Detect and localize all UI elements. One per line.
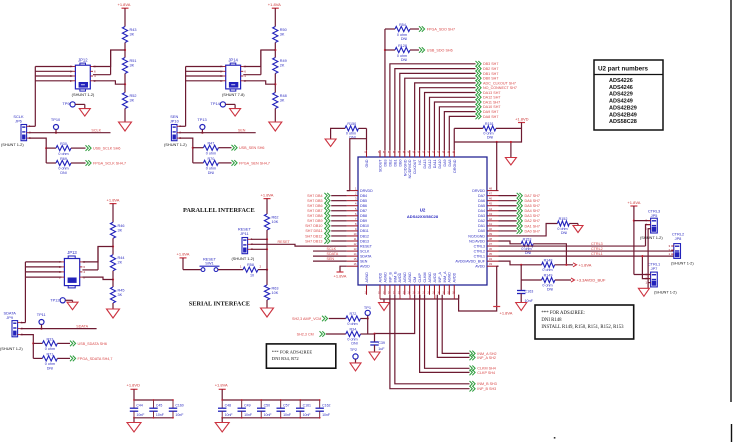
resistor R51 3K (122, 58, 127, 74)
wire net SCLK at U2 (313, 250, 347, 252)
resistor R34 0 ohm DNI (346, 331, 361, 336)
ground (234, 104, 236, 108)
svg-text:3K: 3K (118, 228, 123, 232)
svg-text:+1.8VA: +1.8VA (261, 192, 274, 197)
svg-text:JP9: JP9 (6, 315, 13, 320)
svg-text:NC/AVDD: NC/AVDD (469, 239, 485, 243)
svg-text:TP11: TP11 (37, 312, 46, 317)
svg-text:10nF: 10nF (175, 413, 183, 417)
svg-text:DA10 SH7: DA10 SH7 (483, 105, 500, 109)
svg-text:R50: R50 (280, 28, 287, 32)
svg-text:TP10: TP10 (51, 117, 61, 122)
ground (638, 288, 649, 296)
power +1.8VA (573, 263, 577, 267)
svg-text:(SHUNT 1-2): (SHUNT 1-2) (164, 142, 187, 147)
resistor R149 0 ohm DNI (521, 279, 541, 281)
svg-text:R128: R128 (398, 44, 407, 48)
svg-text:10: 10 (250, 274, 254, 278)
svg-text:INSTALL R149, R150, R151, R152: INSTALL R149, R150, R151, R152, R153 (541, 325, 624, 330)
svg-text:SH7 DB6: SH7 DB6 (307, 204, 322, 208)
resistor R62 10K (264, 214, 269, 230)
svg-text:R151: R151 (485, 122, 494, 126)
svg-text:R33: R33 (47, 337, 54, 341)
JP7 pin stubs (648, 274, 651, 276)
signal NO_CONNECT SH7 (476, 85, 482, 91)
wire JP6 pin3 drop (28, 138, 46, 163)
wire R148 right to +1.8VA (555, 264, 573, 266)
resistor R71 0 ohm DNI (33, 357, 42, 359)
signal INM_B SH3 (470, 381, 476, 387)
JP14 pin stubs (223, 66, 226, 68)
svg-text:R70: R70 (208, 157, 215, 161)
wire JP12 pin2 to divider low tap (93, 81, 125, 84)
svg-text:SDATA: SDATA (360, 254, 372, 258)
wire (266, 230, 268, 270)
wire (55, 130, 57, 133)
svg-text:AGND: AGND (383, 272, 387, 283)
svg-text:DB8: DB8 (360, 214, 367, 218)
svg-text:*** FOR ADS42REE: *** FOR ADS42REE (272, 349, 313, 354)
svg-text:DA7 SH7: DA7 SH7 (525, 194, 540, 198)
svg-text:DA2 SH7: DA2 SH7 (525, 219, 540, 223)
svg-text:C49: C49 (244, 404, 250, 408)
svg-text:SERIAL INTERFACE: SERIAL INTERFACE (189, 301, 250, 308)
wire (361, 333, 375, 335)
ground (72, 300, 74, 302)
capacitor C57 10nF (280, 400, 282, 408)
svg-text:R54: R54 (399, 23, 406, 27)
svg-text:R58: R58 (247, 263, 254, 267)
signal DA1 SH7 (499, 225, 517, 227)
wire net CTRL2 (499, 250, 674, 252)
resistor R63 10K (266, 270, 268, 285)
svg-text:(SHUNT 1-2): (SHUNT 1-2) (232, 256, 255, 261)
svg-text:DA7: DA7 (478, 194, 485, 198)
wire (274, 74, 276, 93)
signal SH7 DB6 (324, 203, 330, 209)
svg-text:R63: R63 (272, 287, 279, 291)
signal DA0 SH7 (499, 230, 517, 232)
svg-text:C48: C48 (225, 404, 231, 408)
wire JP12 pin4 (93, 74, 111, 76)
svg-text:SEN: SEN (360, 259, 368, 263)
svg-text:DA1 SH7: DA1 SH7 (525, 224, 540, 228)
svg-text:FPGA_SEN SH4,7: FPGA_SEN SH4,7 (239, 161, 270, 165)
svg-text:DA6: DA6 (478, 199, 485, 203)
svg-text:1uF: 1uF (378, 347, 385, 351)
svg-text:R62: R62 (272, 216, 279, 220)
capacitor C45 10nF (153, 400, 155, 408)
resistor R48 3K (273, 93, 278, 109)
svg-text:SW1: SW1 (205, 261, 213, 266)
svg-text:3K: 3K (280, 33, 285, 37)
JP10 pin stubs (177, 125, 179, 127)
svg-text:DA2: DA2 (478, 219, 485, 223)
svg-text:10nF: 10nF (136, 413, 144, 417)
wire JP10 pin3 drop (179, 138, 193, 163)
resistor R50 3K (273, 27, 278, 43)
svg-text:FPGA_SCLK SH4,7: FPGA_SCLK SH4,7 (93, 161, 126, 165)
svg-text:TP2: TP2 (350, 347, 357, 352)
svg-text:CTRL3: CTRL3 (591, 242, 603, 246)
svg-text:CLKP SH4: CLKP SH4 (477, 371, 495, 375)
svg-text:DA13 SH7: DA13 SH7 (483, 91, 500, 95)
svg-text:SEN: SEN (238, 129, 246, 133)
svg-text:ADS42XX/58C28: ADS42XX/58C28 (407, 214, 439, 219)
signal SH7 DB4 (324, 193, 330, 199)
svg-text:SH7 DB7: SH7 DB7 (307, 209, 322, 213)
ground (84, 104, 86, 108)
svg-text:DA3 SH7: DA3 SH7 (525, 214, 540, 218)
svg-text:R43: R43 (130, 28, 137, 32)
wire to ground (DRGND) (510, 142, 512, 158)
svg-text:SH7 DB8: SH7 DB8 (307, 214, 322, 218)
JP6 pin stubs (27, 125, 29, 127)
resistor R46 3K (110, 222, 115, 238)
svg-text:USB_SEN SH6: USB_SEN SH6 (239, 146, 264, 150)
resistor R70 0 ohm DNI (193, 162, 204, 164)
svg-text:+1.8VA: +1.8VA (627, 200, 640, 205)
svg-text:JP5: JP5 (651, 213, 658, 218)
resistor R45 3K (110, 287, 115, 303)
signal ADC_CLKOUT SH7 (476, 80, 482, 86)
wire bypass bank bottom bus (134, 417, 173, 419)
svg-text:GND: GND (365, 159, 369, 167)
svg-text:R30: R30 (60, 142, 67, 146)
svg-text:DB6: DB6 (360, 204, 367, 208)
svg-text:ADS4229: ADS4229 (609, 92, 633, 98)
wire bypass bank top bus (134, 399, 173, 401)
ground (325, 139, 336, 147)
U2 bottom pin stubs and names (366, 285, 368, 295)
svg-text:CLKP: CLKP (418, 273, 422, 283)
JP9 pin stubs (18, 322, 21, 324)
svg-text:C45: C45 (156, 404, 162, 408)
wire U2 DRVDD pin1 riser (347, 190, 350, 192)
ground (119, 122, 132, 131)
JP11 pin stubs (248, 238, 251, 240)
svg-text:+3.3AVDD_BUF: +3.3AVDD_BUF (577, 278, 606, 283)
svg-text:DA12 SH7: DA12 SH7 (483, 96, 500, 100)
signal CLKM SH4 (470, 366, 476, 372)
resistor R43 3K (122, 27, 127, 43)
svg-text:JP7: JP7 (651, 266, 658, 271)
svg-text:JP11: JP11 (240, 231, 249, 236)
resistor R30 0 ohm (46, 147, 56, 149)
svg-text:(SHUNT 7-8): (SHUNT 7-8) (222, 92, 245, 97)
JP5 pin stubs (648, 220, 651, 222)
wire (274, 109, 276, 123)
wire JP14 pin8 to divider (243, 50, 275, 67)
sheet border right (730, 0, 732, 402)
svg-text:SH2,3 AMP_VCM: SH2,3 AMP_VCM (292, 317, 321, 321)
wire DB0 riser and run (405, 78, 476, 150)
wire R151 left to DRGND riser (454, 127, 483, 129)
svg-text:DB4: DB4 (360, 194, 367, 198)
wire net RESET to U2 (250, 244, 346, 246)
ground (369, 352, 380, 360)
resistor R44 2K (110, 255, 115, 271)
svg-text:JP14: JP14 (228, 58, 238, 63)
wire (182, 258, 184, 270)
svg-text:ADS42B29: ADS42B29 (609, 105, 637, 111)
wire AVDD pin33 to +1.8VA (497, 265, 499, 267)
signal DA4 SH7 (499, 210, 517, 212)
svg-text:AGND: AGND (428, 272, 432, 283)
svg-text:DA4: DA4 (478, 209, 485, 213)
svg-text:AVDD/AVDD_BUF: AVDD/AVDD_BUF (455, 259, 485, 263)
wire (266, 300, 268, 308)
svg-text:JP12: JP12 (78, 58, 88, 63)
wire (112, 271, 114, 287)
svg-text:R150: R150 (347, 122, 356, 126)
wire JP14 pin4 (243, 74, 261, 76)
U2 left pin stubs and names (347, 190, 358, 192)
svg-text:DNI: DNI (47, 366, 53, 370)
wire SDOUT riser (384, 29, 386, 150)
ground (516, 303, 527, 311)
op IC U2 ADS42XX body (358, 157, 487, 285)
wire net SEN at U2 (313, 260, 347, 262)
wire NO_CONNECT riser and run (420, 88, 476, 151)
svg-text:SDOUT: SDOUT (379, 159, 383, 172)
wire (201, 130, 203, 133)
signal SH7 DB7 (324, 208, 330, 214)
svg-text:CTRL3: CTRL3 (474, 244, 485, 248)
svg-text:DA4 SH7: DA4 SH7 (525, 209, 540, 213)
wire INM_A drop and run (442, 295, 469, 354)
wire (124, 43, 126, 58)
wire CLKP drop and run (420, 295, 470, 373)
wire to JP5 pin3 (634, 220, 651, 222)
svg-text:AGND: AGND (365, 272, 369, 283)
svg-text:DB1 SH7: DB1 SH7 (483, 72, 498, 76)
svg-text:0 ohm: 0 ohm (542, 268, 552, 272)
resistor R151 0 ohm DNI (483, 126, 496, 131)
resistor R150 0 ohm DNI (345, 126, 359, 131)
wire ADC_CLKOUT riser and run (415, 83, 476, 150)
wire (329, 318, 346, 320)
capacitor C44 10nF (133, 400, 135, 408)
svg-text:JP8: JP8 (675, 236, 682, 241)
svg-text:NO_CONNECT SH7: NO_CONNECT SH7 (483, 86, 517, 90)
wire JP9 pin1 from JP13 bus (20, 322, 25, 324)
svg-text:ADS4249: ADS4249 (609, 99, 633, 105)
svg-text:DA3: DA3 (478, 214, 485, 218)
svg-text:R153: R153 (523, 237, 532, 241)
wire DA10 riser and run (439, 107, 475, 150)
signal DA8 SH7 (476, 114, 482, 120)
note box FOR ADS42REE INSTALL R149-R153 (535, 305, 634, 339)
svg-text:R45: R45 (118, 289, 125, 293)
svg-text:DA13: DA13 (423, 160, 427, 169)
signal DB1 SH7 (476, 71, 482, 77)
capacitor C160 10nF (172, 400, 174, 408)
wire NC/AVDD to R153 (499, 241, 522, 244)
svg-text:CTRL1: CTRL1 (474, 254, 485, 258)
svg-text:+1.8VA: +1.8VA (177, 252, 190, 257)
wire +1.8VA to JP7 pin3 (634, 274, 651, 276)
wire (226, 103, 236, 105)
svg-text:0 ohm: 0 ohm (58, 152, 68, 156)
wire JP13 pin2 to low tap (82, 277, 113, 279)
wire (361, 318, 368, 320)
signal FPGA_SDATA SH4,7 (70, 356, 76, 362)
wire to R149 (520, 265, 522, 280)
svg-text:DRGND: DRGND (453, 159, 457, 173)
svg-text:DB0: DB0 (398, 160, 402, 167)
svg-text:0 ohm: 0 ohm (206, 151, 216, 155)
svg-text:(SHUNT 1-2): (SHUNT 1-2) (0, 346, 23, 351)
svg-text:DA9 SH7: DA9 SH7 (483, 110, 498, 114)
svg-text:AGND: AGND (403, 272, 407, 283)
signal SH7 DB12 (324, 233, 330, 239)
wire (112, 303, 114, 309)
svg-text:DB3 SH7: DB3 SH7 (483, 62, 498, 66)
wire R152 right to ground (569, 223, 578, 225)
signal DB0 SH7 (476, 75, 482, 81)
svg-text:AVDD: AVDD (453, 272, 457, 282)
signal DA13 SH7 (476, 90, 482, 96)
svg-text:FPGA_SDO SH7: FPGA_SDO SH7 (427, 27, 455, 31)
svg-text:SDATA: SDATA (327, 252, 339, 256)
svg-text:NC/DRVDD: NC/DRVDD (408, 159, 412, 178)
svg-text:DB5: DB5 (360, 199, 367, 203)
svg-text:DA10: DA10 (438, 160, 442, 169)
svg-text:R149: R149 (544, 274, 553, 278)
svg-text:TP9: TP9 (62, 101, 69, 106)
svg-text:ADS4226: ADS4226 (609, 78, 633, 84)
wire DA9 riser and run (444, 112, 475, 151)
wire net SCLK (28, 132, 110, 134)
svg-text:CTRL2: CTRL2 (591, 247, 603, 251)
svg-text:DA8 SH7: DA8 SH7 (483, 115, 498, 119)
wire DA11 riser and run (434, 102, 475, 150)
svg-text:10nF: 10nF (244, 413, 252, 417)
capacitor C163 10nF (520, 280, 522, 291)
svg-text:DB13: DB13 (360, 239, 369, 243)
wire bus left of JP13 (25, 261, 61, 263)
wire AGND bus under U2 (380, 298, 459, 300)
svg-text:JP10: JP10 (170, 119, 180, 124)
ground (221, 418, 223, 423)
svg-text:SH7 DB9: SH7 DB9 (307, 219, 322, 223)
svg-text:AGND: AGND (408, 272, 412, 283)
svg-text:DA0 SH7: DA0 SH7 (525, 229, 540, 233)
svg-text:DB9: DB9 (360, 219, 367, 223)
svg-text:C160: C160 (175, 404, 183, 408)
wire JP11 pin1 to R62 (250, 238, 267, 240)
svg-text:(SHUNT 1-2): (SHUNT 1-2) (640, 235, 663, 240)
resistor R128 0 ohm DNI (385, 49, 395, 51)
svg-text:DA5: DA5 (478, 204, 485, 208)
svg-text:+1.8VA: +1.8VA (215, 382, 228, 387)
svg-text:ADC_CLKOUT SH7: ADC_CLKOUT SH7 (483, 81, 516, 85)
svg-text:DA9: DA9 (443, 160, 447, 167)
svg-text:R52: R52 (130, 94, 137, 98)
svg-text:CLKOUT: CLKOUT (413, 159, 417, 174)
ground (505, 158, 516, 166)
svg-text:DA12: DA12 (428, 160, 432, 169)
svg-text:DB10: DB10 (360, 224, 369, 228)
wire JP10 pin1 from JP14 bus (179, 125, 186, 127)
capacitor C39 1uF (374, 334, 376, 342)
wire JP9 pin3 drop (20, 335, 33, 359)
svg-text:SCLK: SCLK (91, 129, 101, 133)
svg-text:3K: 3K (118, 293, 123, 297)
wire JP14 pin2 to divider low tap (243, 81, 275, 84)
ground (573, 226, 583, 233)
resistor R52 3K (122, 93, 127, 109)
wire NC/DGND to R152 (499, 224, 558, 236)
signal DA10 SH7 (476, 104, 482, 110)
svg-text:2K: 2K (280, 64, 285, 68)
svg-text:CLKM: CLKM (423, 273, 427, 283)
svg-text:DA5 SH7: DA5 SH7 (525, 204, 540, 208)
wire CLKM drop and run (425, 295, 470, 369)
svg-text:U2: U2 (420, 208, 426, 213)
signal SH7 DB5 (324, 198, 330, 204)
svg-text:(SHUNT 1-2): (SHUNT 1-2) (671, 260, 694, 265)
svg-text:DB11: DB11 (360, 229, 369, 233)
svg-text:C163: C163 (525, 290, 534, 294)
signal DA7 SH7 (499, 195, 517, 197)
svg-text:DNI: DNI (561, 231, 567, 235)
signal CLKP SH4 (470, 370, 476, 376)
capacitor C161 10nF (299, 400, 301, 408)
svg-text:DNI: DNI (208, 171, 214, 175)
svg-text:DA11 SH7: DA11 SH7 (483, 100, 500, 104)
wire (258, 269, 267, 271)
svg-text:FPGA_SDATA SH4,7: FPGA_SDATA SH4,7 (78, 357, 113, 361)
svg-text:C39: C39 (378, 341, 385, 345)
resistor R33 0 ohm (33, 342, 42, 344)
ground (350, 363, 361, 371)
svg-text:INP_B: INP_B (388, 272, 392, 283)
wire JP6 pin1 from JP12 bus (28, 125, 35, 127)
svg-text:ADS58C28: ADS58C28 (609, 119, 637, 125)
svg-text:SH7 DB13: SH7 DB13 (305, 239, 322, 243)
wire net CTRL3 (499, 245, 646, 247)
svg-text:10nF: 10nF (156, 413, 164, 417)
svg-text:SEN: SEN (327, 257, 335, 261)
svg-text:3K: 3K (130, 33, 135, 37)
svg-text:R34: R34 (350, 328, 357, 332)
svg-text:ADS42B49: ADS42B49 (609, 112, 637, 118)
svg-text:R152: R152 (559, 217, 568, 221)
capacitor C48 10nF (221, 400, 223, 408)
wire (326, 333, 346, 335)
svg-text:10nF: 10nF (264, 413, 272, 417)
signal INP_B SH3 (470, 386, 476, 392)
wire DB3 riser and run (390, 64, 476, 150)
svg-text:R148: R148 (544, 258, 553, 262)
power +3.3AVDD_BUF (571, 278, 575, 282)
svg-text:R51: R51 (130, 59, 137, 63)
svg-text:DNI: DNI (351, 341, 357, 345)
wire net SEN (179, 132, 256, 134)
svg-text:R46: R46 (118, 224, 125, 228)
signal INM_A SH2 (470, 351, 476, 357)
signal SH7 DB9 (324, 218, 330, 224)
svg-text:AGND: AGND (448, 272, 452, 283)
svg-text:R71: R71 (47, 352, 54, 356)
wire (274, 43, 276, 58)
wire net SDATA at U2 (313, 255, 347, 257)
svg-text:2K: 2K (118, 261, 123, 265)
svg-text:SDATA: SDATA (76, 325, 88, 329)
resistor R49 2K (273, 58, 278, 74)
